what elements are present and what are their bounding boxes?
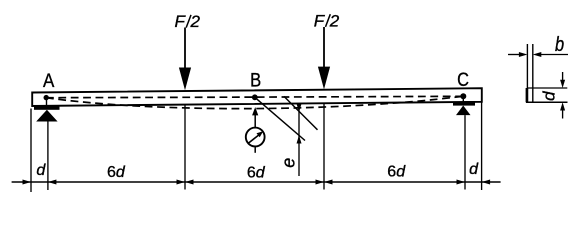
- svg-text:C: C: [457, 69, 469, 91]
- svg-text:d: d: [469, 161, 479, 178]
- svg-text:F: F: [175, 12, 187, 31]
- svg-text:F: F: [314, 12, 326, 31]
- svg-text:B: B: [250, 69, 261, 91]
- svg-text:A: A: [43, 69, 55, 91]
- svg-text:6d: 6d: [247, 164, 266, 181]
- svg-text:d: d: [539, 91, 558, 101]
- svg-text:6d: 6d: [107, 164, 126, 181]
- svg-text:b: b: [555, 32, 564, 55]
- svg-text:e: e: [278, 158, 298, 168]
- svg-text:d: d: [36, 162, 46, 179]
- svg-text:6d: 6d: [387, 164, 406, 181]
